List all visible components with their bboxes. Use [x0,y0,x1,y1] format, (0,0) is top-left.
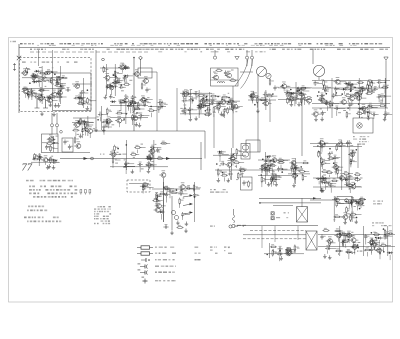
transistor T30 [262,99,269,106]
wire [374,241,380,243]
junction [290,89,292,91]
text br-note1b [372,222,384,223]
text legend-right3 [228,253,232,254]
text value-label [306,87,308,88]
wire [349,107,351,111]
wire [225,101,229,103]
text value-label [321,96,323,97]
text value-label [74,98,76,99]
junction [206,99,208,101]
wire [110,116,148,118]
transistor T21 [182,89,189,96]
wire [367,89,369,95]
text value-label [270,183,272,184]
text value-label [229,108,231,109]
diode D6 [197,104,203,107]
wire [124,101,131,103]
text ps-note2 [373,203,382,204]
text value-label [113,84,115,85]
wire [110,77,117,79]
text legend-right2 [215,253,218,254]
ground [279,256,283,260]
wire [147,102,151,104]
text value-label [125,67,128,68]
capacitor C26 [128,102,133,107]
capacitor C11 [47,78,52,83]
transistor T9 [103,73,110,80]
capacitor C152 [285,248,290,253]
text value-label [104,71,106,72]
text value-label [32,81,34,82]
wire [106,124,108,128]
text value-label [295,165,297,166]
wire [357,144,359,168]
resistor R3 [50,77,55,84]
transistor T8 [56,88,63,95]
text jack-label [237,225,246,226]
wire [123,80,125,82]
capacitor C141 [370,247,375,252]
wire [283,159,288,161]
text value-label [346,201,348,202]
resistor R37 [119,99,126,102]
resistor R53 [229,78,236,81]
node tuning-cap-main [313,65,324,80]
wire [59,66,61,104]
capacitor C67 [361,87,366,92]
svg-text:77: 77 [22,163,33,174]
text value-label [113,97,115,98]
capacitor C36 [182,108,187,113]
wire [123,86,126,88]
node terminal-b [246,50,249,66]
text value-label [343,232,345,233]
wire [125,102,127,104]
wire [331,183,336,185]
capacitor C94 [138,162,143,167]
wire [241,59,253,88]
wire [140,147,146,149]
junction [180,189,182,191]
text k-note3 [210,247,217,248]
wire [163,178,165,222]
resistor R13 [31,90,36,97]
text value-label [180,108,182,109]
capacitor C140 [388,230,393,235]
text value-label [115,77,117,78]
wire [219,106,221,111]
transistor T47 [147,151,154,158]
ground [314,117,318,121]
text value-label [206,95,209,96]
capacitor legend-C154 [141,258,150,262]
junction [87,89,89,91]
text value-label [345,175,347,176]
wire [291,251,296,253]
diode D3 [32,80,38,83]
wire [83,92,88,94]
wire [327,250,329,253]
wire [320,162,322,166]
wire [31,96,33,100]
capacitor C19 [119,84,124,89]
wire [341,140,343,190]
wire [261,226,263,248]
resistor R85 [367,83,372,90]
wire [350,95,355,97]
capacitor legend-C157 [142,277,148,284]
resistor R45 [204,102,211,105]
junction [357,244,359,246]
capacitor C71 [314,81,319,86]
wire [107,121,110,123]
transistor T2 [50,90,57,97]
resistor R132 [221,173,228,176]
node plug-pin-2 [56,124,59,127]
wire [273,204,293,206]
text value-label [251,95,253,96]
wire [376,114,379,116]
wire [123,102,125,104]
text value-label [326,186,328,187]
node phone-jack [232,224,235,227]
wire [195,96,197,100]
wire [63,87,66,89]
junction [281,171,283,173]
wire [38,158,43,160]
transistor T44 [74,141,81,148]
wire [51,71,57,73]
wire [215,169,300,171]
capacitor C102 [167,188,172,193]
resistor R80 [323,79,328,86]
wire [106,126,112,128]
capacitor C147 [341,240,346,245]
text legend-value [195,247,199,248]
text value-label [46,96,48,97]
wire [49,146,51,151]
wire [335,170,337,174]
text note-block1-l3 [0,0,1,1]
text note-block1-l2 [210,192,228,193]
text table3 [24,217,61,223]
resistor R158 [354,172,361,175]
wire [169,188,172,190]
resistor R174 [364,247,371,250]
node filter-box [62,138,73,152]
capacitor C69 [373,86,378,91]
resistor R8 [26,67,31,74]
wire [143,115,150,117]
ground [256,109,260,113]
capacitor C68 [363,109,368,114]
junction [317,95,319,97]
wire [51,127,53,134]
capacitor C83 [50,136,55,141]
text value-label [262,180,265,181]
junction [354,183,356,185]
wire [312,79,390,81]
resistor R176 [351,244,358,247]
wire [118,83,120,85]
text value-label [159,104,161,105]
wire [268,165,274,167]
text value-label [262,166,265,167]
text value-label [352,150,355,151]
wire [140,59,142,76]
wire [318,113,324,115]
resistor R140 [269,163,276,166]
junction [228,97,230,99]
transistor T23 [225,71,232,78]
wire [372,105,379,107]
resistor R42 [202,97,207,104]
text value-label [218,173,220,174]
text am-label-2 [231,70,234,71]
junction [355,200,357,202]
wire [120,105,122,111]
resistor R52 [215,68,222,71]
capacitor C53 [300,92,305,97]
wire [126,140,128,170]
resistor R101 [46,141,53,144]
resistor R126 [156,193,161,200]
capacitor C101 [178,191,183,196]
text value-label [347,87,349,88]
text value-label [142,101,144,102]
junction [332,104,334,106]
capacitor C81 [319,93,324,98]
junction [123,118,125,120]
text legend-right1 [228,247,230,248]
capacitor C85 [68,144,73,149]
junction [317,145,319,147]
resistor R25 [122,65,129,68]
wire [327,181,330,183]
text value-label [263,102,266,103]
wire [348,254,350,259]
transistor T75 [285,249,292,256]
text value-label [369,79,372,80]
wire [103,114,108,116]
wire [381,81,385,83]
resistor R111 [114,145,119,152]
wire [353,242,355,248]
text value-label [200,105,202,106]
wire [378,99,380,102]
diode D8 [289,92,295,95]
text value-label [45,162,47,163]
junction [329,148,331,150]
capacitor C22 [124,65,129,70]
junction [356,217,358,219]
wire [389,255,391,260]
wire [275,252,281,254]
text value-label [354,247,356,248]
resistor R84 [329,100,334,107]
wire [109,110,112,112]
wire [79,97,84,99]
wire [272,95,278,97]
wire [117,81,119,83]
capacitor C45 [211,97,216,102]
text value-label [193,194,196,195]
resistor R142 [261,164,266,171]
node door-symbol [35,99,49,108]
text value-label [22,88,25,89]
capacitor C123 [328,152,333,157]
capacitor C29 [128,100,133,105]
text value-label [146,165,148,166]
wire [169,188,174,190]
text value-label [351,184,353,185]
capacitor C124 [351,150,356,155]
diode D15 [217,151,223,154]
wire [37,156,42,158]
ground [170,231,174,235]
text value-label [321,182,323,183]
wire [110,166,168,168]
wire [134,97,136,99]
wire [306,87,311,89]
wire [53,138,55,140]
node top-label-row2 [37,44,356,47]
text value-label [352,201,355,202]
wire [201,106,204,108]
text value-label [61,89,63,90]
wire [60,158,202,160]
text value-label [108,85,110,86]
resistor R119 [170,190,177,193]
text value-label [351,197,353,198]
junction [113,74,115,76]
wire [51,97,53,99]
text value-label [77,134,79,135]
resistor R128 [248,180,253,187]
wire [353,161,357,163]
wire [145,99,147,101]
node dipole-antenna [13,44,21,71]
text value-label [33,92,35,93]
resistor R36 [137,102,142,109]
wire [84,131,86,136]
junction [55,160,57,162]
resistor R161 [337,168,342,175]
text value-label [182,91,185,92]
wire [185,96,187,100]
wire [351,204,353,207]
text value-label [134,119,136,120]
diode D1 [34,70,40,73]
resistor R178 [379,248,384,255]
wire [298,167,300,169]
wire [378,84,380,88]
junction [47,73,49,75]
wire [117,73,123,75]
wire [381,96,386,98]
text value-label [235,111,237,112]
wire [301,173,303,175]
wire [264,253,304,255]
wire [171,196,173,230]
wire [269,167,272,169]
resistor R40 [106,118,111,125]
node arrowhead [313,197,317,199]
resistor R121 [156,194,161,201]
wire [264,167,271,169]
text value-label [31,78,33,79]
wire [300,96,302,102]
text value-label [320,98,322,99]
capacitor C135 [350,200,355,205]
ground [147,169,151,173]
node jack-double [171,210,178,219]
transistor T27 [305,96,312,103]
wire [288,173,310,175]
wire [196,187,201,189]
resistor R109 [156,156,163,159]
text value-label [184,105,187,106]
wire [186,100,191,102]
junction [52,71,54,73]
transistor T43 [47,135,54,142]
wire [374,249,380,251]
text value-label [122,63,125,66]
wire [261,182,263,188]
junction [163,186,165,188]
wire [385,95,391,97]
junction [53,142,55,144]
text value-label [151,161,153,162]
wire [152,188,200,190]
wire [340,81,347,83]
text value-label [233,160,236,161]
text value-label [362,201,364,202]
text value-label [149,166,151,167]
junction [345,201,347,203]
transistor T40 [348,94,355,101]
transistor T29 [280,82,287,89]
wire [271,182,273,187]
text value-label [272,156,274,157]
wire [140,71,157,73]
wire [297,226,299,240]
ground [220,112,224,116]
wire [144,105,146,107]
wire [165,197,167,202]
text value-label [196,96,199,97]
text value-label [373,232,375,233]
wire [56,127,58,134]
capacitor C7 [57,91,62,96]
wire [272,182,274,186]
wire [228,167,230,172]
wire [106,113,108,116]
wire [347,216,351,218]
wire [342,234,346,236]
wire [232,110,234,113]
wire [283,88,285,91]
text value-label [334,186,336,187]
wire [333,196,335,222]
text value-label [367,109,369,110]
text value-label [364,235,367,236]
wire [272,168,274,173]
junction [206,96,208,98]
wire [184,112,186,115]
resistor R146 [302,174,307,181]
wire [156,72,158,131]
